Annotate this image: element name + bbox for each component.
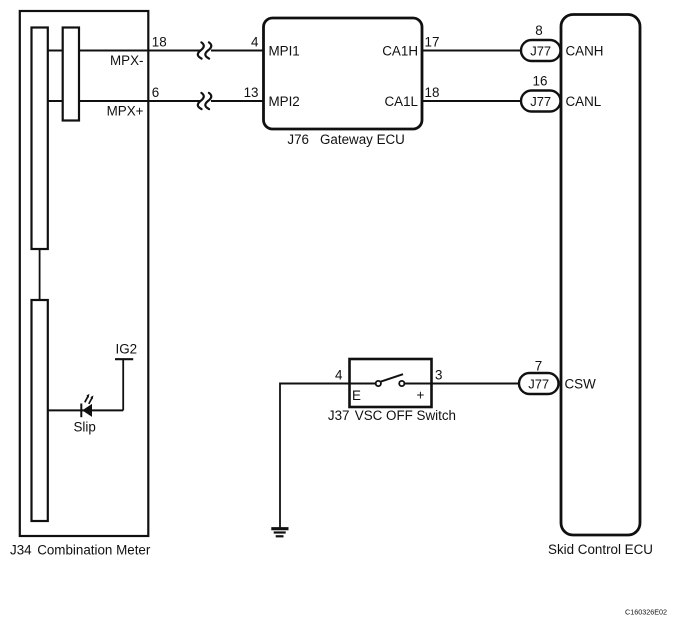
svg-text:Gateway ECU: Gateway ECU (320, 132, 405, 147)
svg-text:MPX-: MPX- (110, 53, 143, 68)
switch blade (open) (381, 374, 403, 381)
wire MPX+ from bar to Gateway pin 13 (left part with inline break gap) (48, 100, 264, 102)
svg-text:Skid Control ECU: Skid Control ECU (548, 542, 653, 557)
wire IG2 drop (122, 359, 124, 410)
svg-text:13: 13 (244, 85, 259, 100)
wire CA1L to J77 connector (422, 100, 523, 102)
svg-text:4: 4 (335, 368, 343, 383)
svg-text:CSW: CSW (565, 377, 597, 392)
connector pin bar lower inside J34 (32, 300, 48, 521)
svg-text:8: 8 (535, 23, 542, 38)
connector J77 oval (CANH) (521, 40, 561, 61)
svg-text:CANL: CANL (566, 94, 602, 109)
wire J34 bar to Slip LED and IG2 drop (48, 409, 124, 411)
svg-text:6: 6 (152, 85, 159, 100)
break symbol on MPX+ wire (198, 93, 211, 109)
wire switch pin 3 to J77 connector (430, 383, 521, 385)
svg-text:CANH: CANH (566, 44, 604, 59)
svg-text:16: 16 (533, 74, 548, 89)
LED Slip triangle (82, 404, 92, 417)
ECU box Skid Control ECU (561, 15, 640, 536)
connector J77 oval (CANL) (521, 91, 561, 112)
svg-text:Slip: Slip (74, 419, 96, 434)
terminal IG2 bar (115, 358, 133, 360)
svg-text:J77: J77 (530, 43, 551, 58)
connector pin bar upper-middle inside J34 (63, 28, 79, 121)
switch right contact (399, 381, 404, 386)
svg-text:CA1L: CA1L (385, 94, 419, 109)
svg-text:MPX+: MPX+ (107, 104, 144, 119)
wire ground drop from switch branch (279, 383, 281, 529)
svg-text:J34: J34 (10, 542, 32, 557)
ground symbol (271, 529, 288, 537)
svg-text:7: 7 (535, 359, 542, 374)
svg-text:J77: J77 (530, 94, 551, 109)
svg-text:CA1H: CA1H (382, 44, 418, 59)
LED emission arrow 1 (85, 394, 90, 402)
svg-text:4: 4 (251, 35, 259, 50)
svg-text:Combination Meter: Combination Meter (37, 542, 151, 557)
connector pin bar upper-left inside J34 (32, 28, 48, 250)
wire CSW: ground branch to switch pin 4 (280, 383, 351, 385)
connector J34 Combination Meter outer box (20, 11, 149, 536)
break symbol on MPX- wire (198, 42, 211, 58)
svg-text:J76: J76 (287, 132, 309, 147)
wire MPX- from bar to Gateway pin 4 (left part with inline break gap) (48, 50, 264, 52)
wire CA1H to J77 connector (422, 50, 523, 52)
svg-text:VSC OFF Switch: VSC OFF Switch (355, 408, 456, 423)
svg-text:18: 18 (152, 35, 167, 50)
svg-text:18: 18 (425, 85, 440, 100)
svg-text:E: E (352, 388, 361, 403)
svg-text:J37: J37 (328, 408, 350, 423)
wire from right contact to box edge (404, 383, 432, 385)
svg-text:17: 17 (425, 35, 440, 50)
switch J37 VSC OFF Switch box (350, 359, 432, 407)
svg-text:C160326E02: C160326E02 (625, 608, 667, 617)
connector J77 oval (CSW) (519, 373, 559, 394)
LED emission arrow 2 (89, 396, 94, 404)
LED Slip cathode bar (80, 404, 82, 418)
svg-text:IG2: IG2 (116, 342, 138, 357)
wire linking upper bar to lower bar (39, 249, 41, 300)
svg-text:J77: J77 (528, 376, 549, 391)
svg-text:MPI1: MPI1 (269, 44, 300, 59)
svg-text:+: + (417, 388, 425, 403)
svg-text:MPI2: MPI2 (269, 94, 300, 109)
switch left contact (376, 381, 381, 386)
wire inside switch box to left contact (350, 383, 377, 385)
svg-text:3: 3 (435, 368, 442, 383)
gateway ECU J76 box (264, 18, 423, 129)
